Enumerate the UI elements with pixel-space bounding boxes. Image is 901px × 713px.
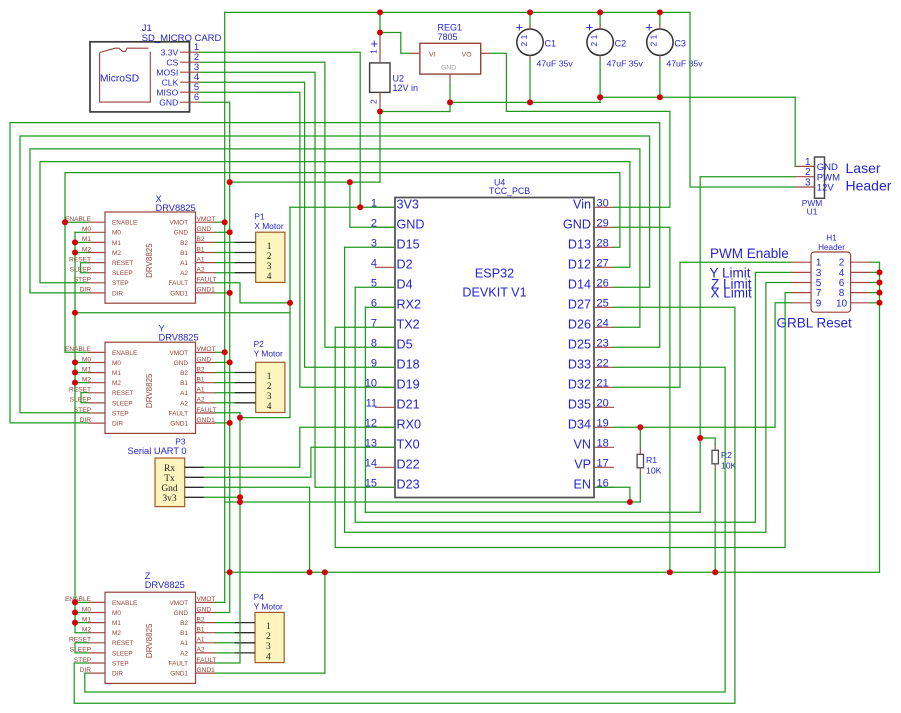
junction at 879.5,272.35 xyxy=(877,269,883,275)
wire X M1 xyxy=(75,241,88,243)
pin 1 of C1 xyxy=(529,24,531,29)
wire X Limit net TX2 to H1 pin7 xyxy=(335,326,394,328)
svg-text:DIR: DIR xyxy=(112,671,123,678)
wire U2 pin2 to GND rail xyxy=(379,112,381,183)
pin 2 PWM of U1 xyxy=(795,176,815,178)
svg-text:Vin: Vin xyxy=(573,197,591,211)
pin 1 GND of U1 xyxy=(795,165,815,167)
wire RX2 PWM xyxy=(365,306,394,308)
pin FAULT of X driver xyxy=(196,282,216,284)
wire Y STEP net D14 xyxy=(20,136,650,413)
pin GND1 of Z driver xyxy=(196,672,216,674)
junction at 75,622.6 xyxy=(72,620,78,626)
pin 9 D18 of U4 xyxy=(375,366,395,368)
pin B2 of Z driver xyxy=(196,622,216,624)
svg-text:29: 29 xyxy=(597,217,609,229)
wire C3 bottom xyxy=(659,61,661,98)
wire X M2 xyxy=(75,252,88,254)
pin FAULT of Y driver xyxy=(196,412,216,414)
svg-text:M1: M1 xyxy=(112,370,121,377)
svg-text:EN: EN xyxy=(574,477,592,491)
pin 28 D13 of U4 xyxy=(594,246,614,248)
svg-text:GND1: GND1 xyxy=(197,417,216,424)
svg-text:A1: A1 xyxy=(197,387,205,394)
junction at 600.1,12.4 xyxy=(597,9,603,15)
wire U2 to REG1 VI xyxy=(380,33,410,54)
pin B1 of X driver xyxy=(196,252,216,254)
stepper driver X driver DRV8825 xyxy=(65,194,217,303)
svg-text:47uF 35v: 47uF 35v xyxy=(537,59,574,69)
junction at 240,502 xyxy=(237,499,243,505)
wire U2 pin1 to top xyxy=(379,12,381,33)
svg-text:+: + xyxy=(645,20,653,35)
pin ENABLE of Z driver xyxy=(88,601,105,603)
pin 2 of H1 xyxy=(851,261,871,263)
svg-text:P4: P4 xyxy=(254,592,265,602)
pin 4 of P4 xyxy=(234,652,255,654)
pin 1 of C2 xyxy=(599,24,601,29)
svg-text:2 1: 2 1 xyxy=(519,34,529,46)
wire SD MISO to D19 xyxy=(199,92,394,387)
svg-text:7805: 7805 xyxy=(438,32,458,42)
pin VMOT of Z driver xyxy=(196,601,216,603)
junction at 450,102.4 xyxy=(447,99,453,105)
svg-text:D12: D12 xyxy=(568,257,591,271)
pin 3v3 of P3 xyxy=(185,496,204,498)
wire ENABLE net D13 xyxy=(65,173,620,353)
svg-text:B1: B1 xyxy=(197,377,205,384)
pin 3 of P2 xyxy=(234,392,255,394)
junction at 669.9,572.2 xyxy=(667,569,673,575)
svg-text:A2: A2 xyxy=(180,270,188,277)
pin STEP of X driver xyxy=(88,282,105,284)
svg-text:4: 4 xyxy=(267,402,272,412)
svg-text:GND: GND xyxy=(174,360,189,367)
pin 25 D27 of U4 xyxy=(594,306,614,308)
svg-text:TX2: TX2 xyxy=(397,317,420,331)
pin M0 of Z driver xyxy=(88,612,105,614)
svg-text:RESET: RESET xyxy=(112,640,133,647)
svg-text:A2: A2 xyxy=(197,647,205,654)
svg-text:M1: M1 xyxy=(112,620,121,627)
junction at 879.5,302.8 xyxy=(877,300,883,306)
svg-text:GND: GND xyxy=(397,217,425,231)
wire PWM drop xyxy=(364,307,366,512)
pin VMOT of X driver xyxy=(196,221,216,223)
wire D34 to H1 pin9 xyxy=(614,303,791,428)
svg-text:4: 4 xyxy=(266,652,271,662)
svg-text:VMOT: VMOT xyxy=(197,596,216,603)
wire X B-A pin 2 to P1 xyxy=(216,252,235,254)
capacitor C3 47uF 35v xyxy=(645,20,703,69)
mcu module U4 ESP32 DEVKIT V1 TCC_PCB xyxy=(365,178,614,498)
pin DIR of X driver xyxy=(88,292,105,294)
wire 12V vertical to VMOT pins xyxy=(216,12,225,602)
junction at 629.9,502 xyxy=(627,499,633,505)
junction at 224.7,222.2 xyxy=(222,219,228,225)
svg-text:TCC_PCB: TCC_PCB xyxy=(489,186,530,196)
junction at 240,417.6 xyxy=(237,415,243,421)
wire M pins tie line xyxy=(75,312,290,314)
wire 5V REG1 VO to ESP32 Vin xyxy=(491,53,670,207)
junction at 240,497.3 xyxy=(237,494,243,500)
svg-text:GND1: GND1 xyxy=(170,671,188,678)
pin M0 of X driver xyxy=(88,231,105,233)
svg-text:+: + xyxy=(371,36,379,51)
wire 12V top bus xyxy=(225,11,690,13)
svg-text:FAULT: FAULT xyxy=(197,657,217,664)
wire 12V to laser pin3 xyxy=(690,12,795,187)
pin 2 of P2 xyxy=(234,382,255,384)
pin 1 of U2 xyxy=(379,34,381,63)
pin 23 D25 of U4 xyxy=(594,346,614,348)
svg-text:GND: GND xyxy=(441,65,456,72)
junction at 640.3,427.3 xyxy=(637,424,643,430)
wire Y Limit net D4 to H1 pin3 xyxy=(355,286,394,288)
junction at 659.9,12.4 xyxy=(657,9,663,15)
svg-text:30: 30 xyxy=(597,197,609,209)
svg-text:24: 24 xyxy=(597,317,609,329)
svg-text:DRV8825: DRV8825 xyxy=(145,623,154,658)
svg-text:STEP: STEP xyxy=(112,280,129,287)
svg-text:D18: D18 xyxy=(397,357,420,371)
wire H1 pin8 xyxy=(871,292,880,294)
pin 2 of U2 xyxy=(379,92,381,111)
pin 6 of H1 xyxy=(851,282,871,284)
wire Z DIR net D33 xyxy=(85,367,725,692)
svg-text:GND: GND xyxy=(174,230,189,237)
wire H1 pin2 xyxy=(871,261,880,263)
wire PWM bottom run xyxy=(365,511,700,513)
pin A2 of Y driver xyxy=(196,402,216,404)
svg-text:B2: B2 xyxy=(197,236,205,243)
pin GND of Z driver xyxy=(196,612,216,614)
svg-text:2: 2 xyxy=(267,252,272,262)
svg-text:MISO: MISO xyxy=(156,88,178,98)
svg-text:FAULT: FAULT xyxy=(169,410,189,417)
junction at 229.7,292.9 xyxy=(227,290,233,296)
pin RESET of Y driver xyxy=(88,392,105,394)
pin 2 of R1 xyxy=(639,468,641,474)
svg-text:P1: P1 xyxy=(254,212,265,222)
pin 2 of R2 xyxy=(714,464,716,470)
wire ESP32 pin1 3V3 xyxy=(290,206,394,208)
svg-text:Serial UART 0: Serial UART 0 xyxy=(128,446,187,456)
junction at 349.9,182.1 xyxy=(347,179,353,185)
wire X VMOT xyxy=(216,221,225,223)
pin 3 of P4 xyxy=(234,642,255,644)
wire X RESET-SLEEP loop xyxy=(81,263,89,273)
svg-text:A2: A2 xyxy=(180,400,188,407)
pin 5 D4 of U4 xyxy=(375,286,395,288)
svg-text:2 1: 2 1 xyxy=(649,34,659,46)
pin A1 of Y driver xyxy=(196,392,216,394)
pin 1 of R2 xyxy=(714,444,716,451)
pin 3 of H1 xyxy=(791,271,811,273)
pin Rx of P3 xyxy=(185,466,204,468)
wire C2 bottom xyxy=(599,61,601,98)
svg-text:B2: B2 xyxy=(197,366,205,373)
pin B1 of Z driver xyxy=(196,632,216,634)
svg-text:M1: M1 xyxy=(112,240,121,247)
pin ENABLE of Y driver xyxy=(88,351,105,353)
pin A1 of Z driver xyxy=(196,642,216,644)
svg-text:A2: A2 xyxy=(197,397,205,404)
wire X GND1 xyxy=(216,292,230,294)
junction at 75,312.7 xyxy=(72,310,78,316)
pin DIR of Z driver xyxy=(88,672,105,674)
pin STEP of Y driver xyxy=(88,412,105,414)
svg-text:Tx: Tx xyxy=(164,474,175,484)
pin 4 D2 of U4 xyxy=(375,266,395,268)
svg-text:D21: D21 xyxy=(397,397,420,411)
svg-text:B2: B2 xyxy=(180,370,188,377)
svg-text:47uF 35v: 47uF 35v xyxy=(666,59,703,69)
svg-text:CS: CS xyxy=(166,58,178,68)
svg-text:DIR: DIR xyxy=(112,421,123,428)
wire Z B-A pin 2 to P4 xyxy=(216,632,235,634)
pin A2 of X driver xyxy=(196,272,216,274)
junction at 224.7,352.3 xyxy=(222,349,228,355)
wire X STEP net D12 xyxy=(40,162,630,283)
junction at 75,372.5 xyxy=(72,370,78,376)
pin 26 D14 of U4 xyxy=(594,286,614,288)
wire Z ENABLE xyxy=(75,601,88,603)
svg-text:D13: D13 xyxy=(568,237,591,251)
wire C1 bottom xyxy=(529,61,531,103)
stepper driver Z driver DRV8825 xyxy=(65,571,217,683)
wire X B-A pin 4 to P1 xyxy=(216,272,235,274)
wire H1 pin6 xyxy=(871,282,880,284)
svg-text:B1: B1 xyxy=(180,630,188,637)
wire Y GND xyxy=(216,361,230,363)
wire M pins vertical xyxy=(75,232,88,632)
svg-text:Y Motor: Y Motor xyxy=(254,349,283,359)
svg-text:A1: A1 xyxy=(197,637,205,644)
svg-text:2: 2 xyxy=(369,99,379,104)
svg-text:3: 3 xyxy=(267,262,272,272)
pin RESET of Z driver xyxy=(88,642,105,644)
svg-text:2 1: 2 1 xyxy=(589,34,599,46)
pin Tx of P3 xyxy=(185,476,204,478)
wire P3 Tx to TX0 xyxy=(204,447,394,477)
junction at 360.2,207.3 xyxy=(357,204,363,210)
pin 6 RX2 of U4 xyxy=(375,306,395,308)
svg-text:SLEEP: SLEEP xyxy=(112,270,133,277)
svg-text:STEP: STEP xyxy=(112,410,129,417)
pin STEP of Z driver xyxy=(88,662,105,664)
wire cap gnd jog xyxy=(599,97,601,102)
pin GND of REG1 xyxy=(449,74,451,83)
pin 7 TX2 of U4 xyxy=(375,326,395,328)
junction at 75,612.5 xyxy=(72,610,78,616)
pin VI of REG1 xyxy=(410,52,420,54)
wire X GND xyxy=(216,231,230,233)
svg-text:VI: VI xyxy=(429,52,436,59)
svg-text:2: 2 xyxy=(266,632,271,642)
svg-text:FAULT: FAULT xyxy=(197,407,217,414)
svg-text:3V3: 3V3 xyxy=(397,197,419,211)
wire SD 3.3V xyxy=(199,52,360,207)
wire R2 tap xyxy=(700,438,715,445)
svg-text:22: 22 xyxy=(597,357,609,369)
svg-text:GND1: GND1 xyxy=(197,667,216,674)
pin FAULT of Z driver xyxy=(196,662,216,664)
svg-text:VN: VN xyxy=(574,437,592,451)
pin 7 of H1 xyxy=(791,292,811,294)
svg-text:D32: D32 xyxy=(568,377,591,391)
wire cap gnd to laser xyxy=(600,96,795,98)
svg-text:GND: GND xyxy=(197,226,212,233)
wire SD MOSI to D23 xyxy=(199,72,394,487)
pin B2 of X driver xyxy=(196,241,216,243)
pin 1 of P1 xyxy=(234,241,255,243)
wire GND vertical left xyxy=(216,102,230,612)
junction at 229.7,422.9 xyxy=(227,420,233,426)
wire Z B-A pin 1 to P4 xyxy=(216,622,235,624)
svg-text:P2: P2 xyxy=(254,339,265,349)
svg-text:VMOT: VMOT xyxy=(170,600,189,607)
svg-text:3: 3 xyxy=(267,392,272,402)
pin 12 RX0 of U4 xyxy=(375,426,395,428)
junction dots group xyxy=(62,9,883,625)
junction at 229.7,362.4 xyxy=(227,359,233,365)
svg-text:U2: U2 xyxy=(393,74,405,84)
junction at 75,242.4 xyxy=(72,239,78,245)
svg-text:ESP32: ESP32 xyxy=(475,267,514,281)
junction at 75,362.4 xyxy=(72,359,78,365)
svg-text:B1: B1 xyxy=(197,627,205,634)
svg-text:STEP: STEP xyxy=(112,660,129,667)
pin 4 of H1 xyxy=(851,271,871,273)
junction at 229.7,182.1 xyxy=(227,179,233,185)
svg-text:RX2: RX2 xyxy=(397,297,422,311)
pin 1 3V3 of U4 xyxy=(375,206,395,208)
svg-text:RESET: RESET xyxy=(112,390,133,397)
svg-text:CLK: CLK xyxy=(162,78,179,88)
svg-text:D23: D23 xyxy=(397,477,420,491)
pin 13 TX0 of U4 xyxy=(375,446,395,448)
svg-text:Header: Header xyxy=(846,177,892,193)
stepper driver Y driver DRV8825 xyxy=(65,324,217,434)
pin M2 of Y driver xyxy=(88,382,105,384)
junction at 290,302.9 xyxy=(287,300,293,306)
svg-text:D19: D19 xyxy=(397,377,420,391)
svg-text:M2: M2 xyxy=(112,380,121,387)
connector P3 Serial UART 0 xyxy=(128,436,205,506)
wire PWM riser to laser xyxy=(699,177,701,513)
wire GND drop to ESP32 pin2 xyxy=(350,182,394,227)
pin 15 D23 of U4 xyxy=(375,486,395,488)
svg-text:SLEEP: SLEEP xyxy=(112,400,133,407)
svg-text:VMOT: VMOT xyxy=(197,216,216,223)
svg-text:21: 21 xyxy=(597,377,609,389)
svg-text:B2: B2 xyxy=(180,240,188,247)
wire P3 Rx to RX0 xyxy=(204,427,394,467)
svg-text:REG1: REG1 xyxy=(438,23,463,33)
wire 3V3 jog xyxy=(240,417,290,419)
wire PWM Enable net D32 to H1 pin1 xyxy=(614,262,791,387)
wire Z STEP net D27 xyxy=(74,307,735,703)
svg-text:28: 28 xyxy=(597,237,609,249)
svg-text:DRV8825: DRV8825 xyxy=(159,333,199,343)
wire Y M0 xyxy=(75,361,88,363)
svg-text:A1: A1 xyxy=(180,640,188,647)
wire R1 bottom xyxy=(639,474,641,502)
connector H1 Header xyxy=(791,234,871,313)
connector U2 12V in xyxy=(369,34,419,112)
svg-text:VP: VP xyxy=(574,457,591,471)
svg-text:+: + xyxy=(586,20,594,35)
wire 3V3 vertical xyxy=(289,207,291,417)
pin A2 of Z driver xyxy=(196,652,216,654)
wire Z M1 xyxy=(75,622,88,624)
wire Y FAULT xyxy=(216,412,241,414)
pin 24 D26 of U4 xyxy=(594,326,614,328)
pin 5 MISO of J1 xyxy=(180,91,199,93)
connector P1 X Motor xyxy=(234,212,285,283)
pin GND1 of X driver xyxy=(196,292,216,294)
svg-text:Header: Header xyxy=(818,243,845,252)
svg-text:18: 18 xyxy=(597,437,609,449)
junction at 380,111.5 xyxy=(377,109,383,115)
svg-text:M0: M0 xyxy=(112,230,121,237)
junction at 65,222.2 xyxy=(62,219,68,225)
wire laser pin1 GND xyxy=(794,97,796,166)
svg-text:MicroSD: MicroSD xyxy=(100,74,139,85)
wire R2 bottom to bus xyxy=(714,470,716,573)
svg-text:DIR: DIR xyxy=(112,290,123,297)
svg-text:GND: GND xyxy=(197,356,212,363)
svg-text:Gnd: Gnd xyxy=(161,484,178,494)
svg-text:47uF 35v: 47uF 35v xyxy=(607,59,644,69)
pin 6 GND of J1 xyxy=(180,101,199,103)
pin M1 of Z driver xyxy=(88,622,105,624)
wire ground bus bottom xyxy=(225,571,879,573)
wire 3V3 drop to Z FAULT xyxy=(216,413,241,663)
svg-text:D15: D15 xyxy=(397,237,420,251)
svg-text:ENABLE: ENABLE xyxy=(112,600,137,607)
wire Z GND1 riser xyxy=(324,572,326,673)
wire X FAULT to 3V3 xyxy=(216,283,291,303)
svg-text:C2: C2 xyxy=(615,39,627,49)
junction at 530,102.4 xyxy=(527,99,533,105)
svg-text:A1: A1 xyxy=(180,260,188,267)
wire Z GND1 xyxy=(216,672,325,674)
wire Y VMOT xyxy=(216,351,225,353)
pin 19 D34 of U4 xyxy=(594,426,614,428)
regulator REG1 7805 xyxy=(410,23,491,84)
pin 10 D19 of U4 xyxy=(375,386,395,388)
capacitor C1 47uF 35v xyxy=(516,20,574,69)
svg-text:SLEEP: SLEEP xyxy=(112,650,133,657)
pin SLEEP of X driver xyxy=(88,272,105,274)
wire Y B-A pin 3 to P2 xyxy=(216,392,235,394)
wire X B-A pin 3 to P1 xyxy=(216,262,235,264)
pin GND1 of Y driver xyxy=(196,422,216,424)
svg-text:27: 27 xyxy=(597,257,609,269)
svg-text:B2: B2 xyxy=(197,616,205,623)
wire Z RESET-SLEEP loop xyxy=(75,643,88,653)
wire R1 top xyxy=(639,427,641,447)
svg-text:U1: U1 xyxy=(807,207,818,217)
svg-text:D22: D22 xyxy=(397,457,420,471)
svg-text:2: 2 xyxy=(267,382,272,392)
svg-text:DRV8825: DRV8825 xyxy=(145,580,185,590)
pin 1 of H1 xyxy=(791,261,811,263)
wire SD CLK to D18 xyxy=(199,82,394,367)
pin 5 of H1 xyxy=(791,282,811,284)
